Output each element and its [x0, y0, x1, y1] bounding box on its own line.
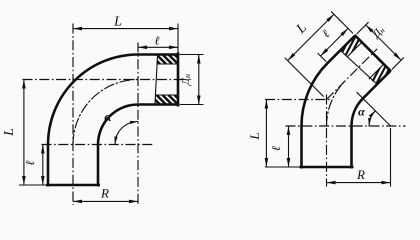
hatching inclined inner wall	[352, 54, 372, 92]
right pipe end face	[177, 53, 180, 107]
extension line tangent2	[318, 53, 326, 61]
section boundary line	[155, 56, 158, 104]
elbow 45deg inner arc	[352, 98, 363, 126]
vertical line through bend center	[137, 43, 139, 206]
horizontal centerline through bend center 2	[286, 125, 406, 127]
inclined pipe inner edge	[363, 71, 391, 99]
extension lines Dn	[180, 54, 204, 56]
dimension R	[73, 200, 138, 202]
extension line face outer	[331, 11, 353, 33]
elbow 90deg outer arc	[48, 55, 138, 145]
svg-text:α: α	[104, 109, 112, 124]
bottom pipe2 end face	[300, 166, 354, 169]
dimension Dn inclined	[366, 25, 401, 60]
angle dimension arc	[115, 122, 138, 145]
right pipe top edge	[138, 53, 180, 56]
svg-text:L: L	[113, 15, 122, 30]
extension line vertex2	[285, 58, 324, 97]
bottom face2 extension left	[265, 166, 302, 168]
svg-text:R: R	[356, 167, 365, 182]
svg-text:L: L	[2, 128, 17, 137]
bottom pipe2 right edge	[350, 126, 353, 169]
inclined section boundary	[340, 50, 377, 84]
bottom pipe2 centerline	[326, 94, 328, 186]
inclined axis centerline	[327, 49, 378, 100]
hatching bottom wall	[145, 95, 155, 105]
svg-text:ℓ: ℓ	[269, 146, 283, 151]
bottom face extension line left	[19, 184, 48, 186]
dimension L2 vertical	[265, 99, 267, 167]
bottom pipe2 left edge	[300, 126, 303, 169]
dimension R2	[327, 182, 391, 184]
dimension L top	[73, 28, 178, 30]
horizontal line through bend center	[42, 144, 153, 146]
angle dimension arc 2	[369, 111, 375, 126]
svg-text:α: α	[358, 105, 365, 119]
elbow 45deg centerline arc	[327, 81, 346, 126]
extension line right face top	[177, 24, 179, 55]
hatching top wall	[145, 55, 155, 65]
bottom pipe centerline (vertical)	[72, 24, 74, 206]
elbow 90deg centerline arc	[73, 80, 138, 145]
right pipe bottom edge	[138, 103, 180, 106]
dimension L left	[23, 80, 25, 186]
horizontal line at vertex 2	[265, 98, 331, 100]
svg-text:R: R	[100, 186, 109, 201]
dimension L2 inclined	[288, 14, 334, 60]
bottom pipe end face	[46, 184, 100, 187]
dimension l top	[138, 46, 178, 48]
right pipe bore lines (section)	[157, 63, 179, 65]
radius line from bend center 2	[357, 92, 391, 126]
bottom pipe left edge	[47, 145, 50, 187]
right pipe centerline (horizontal)	[23, 79, 184, 81]
extension lines Dn2	[357, 22, 369, 34]
inclined pipe outer edge	[328, 35, 356, 63]
inclined bore lines (section)	[347, 42, 362, 57]
elbow 90deg inner arc	[98, 105, 138, 145]
inclined pipe end face	[355, 35, 391, 71]
bottom pipe right edge	[97, 145, 100, 187]
svg-text:L: L	[247, 132, 262, 140]
dimension l2 vertical	[288, 126, 290, 167]
dimension Dn right	[198, 55, 200, 105]
svg-text:ℓ: ℓ	[23, 161, 37, 166]
svg-text:ℓ: ℓ	[155, 34, 160, 48]
dimension l left	[42, 145, 44, 186]
elbow 45deg outer arc	[302, 63, 328, 126]
extension line R2 right	[390, 128, 392, 187]
dimension l2 inclined	[321, 28, 349, 56]
